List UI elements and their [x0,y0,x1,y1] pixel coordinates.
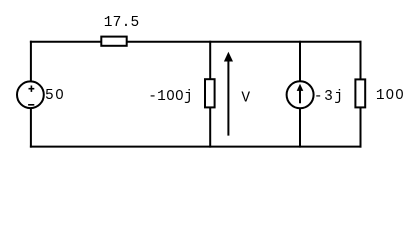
zero-dot covers (plain zeros like target font) [58,93,401,97]
svg-text:50: 50 [45,88,65,104]
wire top [30,41,362,43]
svg-text:-3j: -3j [314,89,345,105]
wire bottom [30,146,362,148]
voltage source minus sign [28,104,34,106]
current source I1 [287,81,314,108]
svg-text:V: V [241,90,250,106]
voltage source plus sign [29,86,35,92]
resistor 17.5 [101,37,126,46]
wire middle branch [209,41,211,148]
wire current-source branch [299,41,301,148]
svg-text:17.5: 17.5 [104,15,140,31]
svg-text:-100j: -100j [148,89,193,105]
arrow V (voltage reference arrow) [224,52,233,136]
resistor 100 [355,79,365,107]
wire left [30,41,32,148]
wire right [360,41,362,148]
voltage source V1 [17,81,44,108]
svg-text:100: 100 [376,88,405,104]
current source arrow [297,84,304,104]
capacitor -100j box [205,79,215,107]
